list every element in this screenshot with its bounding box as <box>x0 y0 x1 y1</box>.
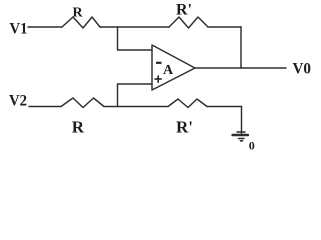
svg-text:R: R <box>73 5 84 20</box>
svg-text:R: R <box>72 117 85 136</box>
svg-text:A: A <box>163 63 174 78</box>
svg-text:V1: V1 <box>10 20 28 37</box>
svg-text:V2: V2 <box>9 92 27 109</box>
svg-text:R': R' <box>176 117 193 136</box>
svg-text:0: 0 <box>249 139 255 153</box>
svg-text:R': R' <box>176 2 192 19</box>
svg-text:V0: V0 <box>293 60 312 77</box>
